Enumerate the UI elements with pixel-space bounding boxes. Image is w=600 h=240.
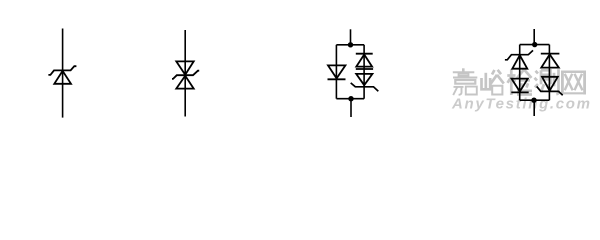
svg-text:AnyTesting.com: AnyTesting.com <box>451 96 592 113</box>
